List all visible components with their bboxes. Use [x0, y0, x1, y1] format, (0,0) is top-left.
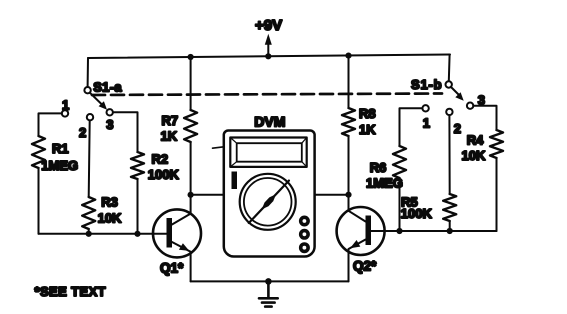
- label R2: [152, 152, 169, 167]
- label S1-a: [93, 80, 122, 95]
- resistor R2: [131, 152, 144, 179]
- meter DVM display window: [230, 138, 306, 167]
- resistor R4: [490, 130, 503, 158]
- wire S1-b pole to rail: [448, 55, 451, 82]
- label 2 (S1-b): [454, 121, 461, 136]
- label R7: [162, 113, 179, 128]
- svg-text:1MEG: 1MEG: [41, 158, 78, 173]
- svg-text:1MEG: 1MEG: [366, 176, 403, 191]
- label R5: [401, 194, 418, 209]
- wire R8 branch from rail: [348, 56, 350, 108]
- wire DVM right lead: [315, 194, 349, 196]
- wire contact2 to R5 top: [448, 115, 450, 194]
- wire Q2 base rail: [371, 230, 497, 232]
- label R6: [370, 160, 387, 175]
- meter DVM button 2: [301, 231, 308, 238]
- value 10K (R4): [462, 148, 486, 163]
- label R8: [359, 106, 376, 121]
- svg-text:2: 2: [454, 121, 461, 136]
- meter DVM range slider: [232, 172, 238, 190]
- wire R5 bottom stub: [449, 221, 451, 231]
- value 100K (R2): [148, 167, 180, 182]
- wire R3 bottom stub: [88, 229, 90, 234]
- label Q2*: [353, 258, 377, 273]
- label 3 (S1-b): [478, 92, 485, 107]
- label R1: [52, 141, 69, 156]
- value 1K (R8): [359, 122, 376, 137]
- node junction R2-base rail: [134, 231, 140, 237]
- svg-text:3: 3: [106, 117, 113, 132]
- wire DVM left lead: [191, 194, 224, 196]
- wire R2 bottom to base rail: [137, 179, 139, 234]
- resistor R5: [443, 194, 456, 221]
- switch S1-b contact 1: [422, 105, 428, 111]
- switch S1-a pole: [84, 87, 90, 93]
- power +9V arrow: [265, 34, 272, 57]
- label DVM: [254, 113, 285, 129]
- svg-text:R3: R3: [101, 195, 118, 210]
- label Q1*: [160, 261, 184, 276]
- label 1 (S1-a): [62, 98, 69, 113]
- label S1-b: [411, 77, 442, 92]
- switch S1-a contact 2: [87, 114, 93, 120]
- value 100K (R5): [401, 206, 433, 221]
- svg-text:+9V: +9V: [255, 17, 282, 34]
- wire top +9V supply rail: [88, 55, 450, 59]
- svg-text:*SEE TEXT: *SEE TEXT: [35, 284, 107, 299]
- meter DVM body: [224, 131, 315, 257]
- switch S1-a arm: [90, 93, 107, 110]
- node junction Q1 collector / DVM left: [188, 192, 194, 198]
- svg-text:R8: R8: [359, 106, 376, 121]
- value 1MEG (R1): [41, 158, 78, 173]
- svg-text:1: 1: [62, 98, 69, 113]
- wire contact1 to R1 top: [39, 113, 62, 136]
- switch S1-a contact 1: [62, 110, 68, 116]
- dashed gang linkage S1-a to S1-b: [92, 94, 442, 96]
- svg-text:S1-a: S1-a: [93, 80, 122, 95]
- label R4: [467, 133, 484, 148]
- svg-text:Q2*: Q2*: [353, 258, 377, 273]
- wire contact2 to R3 top: [89, 120, 90, 197]
- meter DVM button 1: [301, 217, 308, 224]
- label 2 (S1-a): [79, 125, 86, 140]
- meter DVM dial: [240, 174, 296, 230]
- transistor Q1: [153, 195, 201, 282]
- note *SEE TEXT: [35, 284, 107, 299]
- node junction R3-base rail: [86, 231, 92, 237]
- wire R8 bottom to collector node: [348, 136, 350, 195]
- svg-text:100K: 100K: [401, 206, 433, 221]
- switch S1-b pole: [446, 81, 452, 87]
- svg-text:1: 1: [423, 116, 430, 131]
- svg-text:10K: 10K: [462, 148, 486, 163]
- node junction rail-R8: [345, 53, 351, 59]
- meter DVM minus tick: [213, 147, 224, 148]
- svg-text:1K: 1K: [161, 129, 178, 144]
- svg-text:R4: R4: [467, 133, 484, 148]
- switch S1-b contact 3: [467, 103, 473, 109]
- label 3 (S1-a): [106, 117, 113, 132]
- label +9V: [255, 17, 282, 34]
- svg-text:1K: 1K: [359, 122, 376, 137]
- svg-text:S1-b: S1-b: [411, 77, 442, 92]
- node junction ground: [265, 278, 272, 285]
- ground: [259, 281, 278, 306]
- switch S1-b contact 2: [446, 109, 452, 115]
- wire contact1 to R6 top: [400, 108, 423, 146]
- wire R6 bottom to base rail: [399, 178, 401, 231]
- wire R4 bottom to base rail: [496, 158, 498, 231]
- value 1MEG (R6): [366, 176, 403, 191]
- svg-text:R7: R7: [162, 113, 179, 128]
- resistor R3: [82, 197, 95, 229]
- resistor R1: [32, 136, 45, 168]
- wire contact3 to R4 top: [473, 106, 496, 130]
- node junction rail-R7: [188, 54, 194, 60]
- wire Q1 base rail: [39, 233, 167, 235]
- wire R7 branch from rail: [190, 57, 192, 110]
- meter DVM button 3: [301, 244, 308, 251]
- svg-text:R6: R6: [370, 160, 387, 175]
- wire emitter ground rail: [191, 280, 349, 282]
- svg-text:R2: R2: [152, 152, 169, 167]
- svg-text:2: 2: [79, 125, 86, 140]
- switch S1-a contact 3: [107, 109, 113, 115]
- node junction Q2 collector / DVM right: [345, 192, 351, 198]
- node junction rail +9V: [265, 53, 271, 59]
- node junction R5-base rail: [447, 228, 453, 234]
- value 1K (R7): [161, 129, 178, 144]
- svg-text:100K: 100K: [148, 167, 180, 182]
- label 1 (S1-b): [423, 116, 430, 131]
- resistor R8: [342, 108, 355, 136]
- svg-text:DVM: DVM: [254, 113, 285, 129]
- wire R1 bottom to base rail: [38, 168, 40, 234]
- svg-text:R1: R1: [52, 141, 69, 156]
- wire contact3 to R2 top: [113, 112, 138, 152]
- wire R7 bottom to collector node: [190, 142, 192, 195]
- transistor Q2: [337, 195, 385, 282]
- wire S1-a pole to rail: [87, 58, 89, 87]
- switch S1-b arm: [451, 87, 464, 101]
- svg-text:10K: 10K: [98, 211, 122, 226]
- value 10K (R3): [98, 211, 122, 226]
- resistor R7: [184, 110, 197, 142]
- node junction R6-base rail: [396, 228, 402, 234]
- label R3: [101, 195, 118, 210]
- svg-text:Q1*: Q1*: [160, 261, 184, 276]
- resistor R6: [393, 146, 406, 178]
